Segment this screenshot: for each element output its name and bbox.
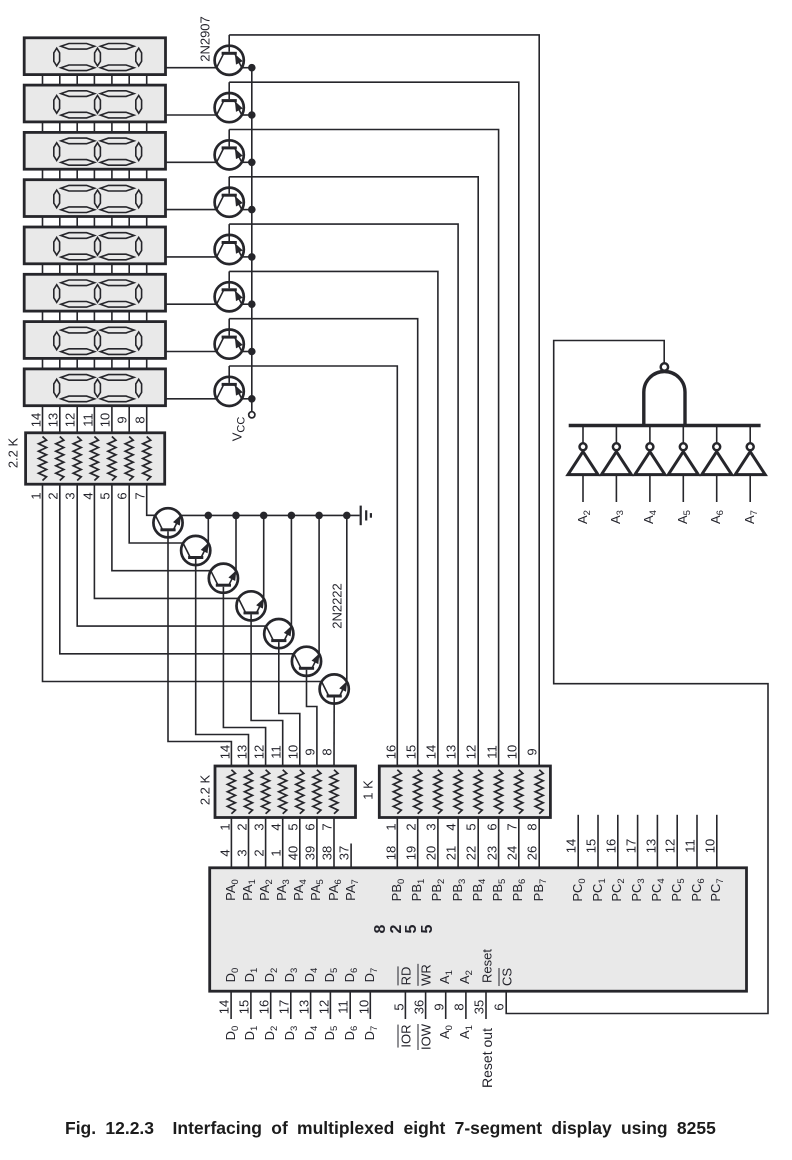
wire DS3 common to Q3 collector	[166, 161, 217, 163]
wire Q6 base to RP3 pin 14	[229, 271, 438, 766]
transistor Q8 2N2907 (PNP digit driver 8)	[215, 366, 252, 406]
transistor Q13 2N2222 (NPN segment driver 5)	[264, 512, 295, 649]
inverter U4 (input A3)	[601, 426, 631, 503]
label Vcc	[230, 417, 247, 442]
label RP1 2.2 K	[6, 437, 19, 467]
external bus labels D0-D7	[0, 0, 792, 1]
wire Q1 base to RP3 pin 9	[229, 35, 539, 766]
wire RP1 pin 3 to Q13 collector	[77, 484, 266, 626]
wire Q8 base to RP3 pin 16	[229, 366, 397, 766]
wire DS8 common to Q8 collector	[166, 398, 217, 400]
ground rail	[181, 514, 360, 516]
pin numbers 1-7 below RP1	[0, 0, 792, 1]
inverter U8 (input A7)	[735, 426, 765, 503]
wire DS7 common to Q7 collector	[166, 351, 217, 353]
inverter U3 (input A2)	[568, 426, 598, 503]
Vcc terminal	[249, 412, 255, 418]
7-segment display DS6	[24, 274, 165, 311]
8255 pin numbers for D0-D7	[0, 0, 792, 1]
wire Q14 base to RP2 pin 9	[307, 670, 317, 766]
ground symbol	[361, 506, 371, 526]
label 2N2222	[330, 583, 343, 629]
transistor Q15 2N2222 (NPN segment driver 7)	[320, 512, 351, 704]
segment bus pins below DS1	[43, 75, 147, 86]
7-segment display DS3	[24, 132, 165, 169]
8255 pin numbers 5 36 9 8 35 6	[0, 0, 792, 1]
resistor pack RP3 1K (base resistors)	[379, 766, 550, 818]
label RP3 1 K	[362, 780, 375, 800]
wire DS2 common to Q2 collector	[166, 114, 217, 116]
transistor Q14 2N2222 (NPN segment driver 6)	[292, 512, 323, 676]
IC U1 8255 PPI body	[210, 868, 747, 991]
transistor Q11 2N2222 (NPN segment driver 3)	[209, 512, 240, 593]
transistor Q1 2N2907 (PNP digit driver 1)	[215, 35, 252, 75]
inverter U7 (input A6)	[702, 426, 732, 503]
wire Q15 base to RP2 pin 8	[333, 698, 335, 767]
wire RP1 pin 2 to Q14 collector	[60, 484, 294, 654]
7-segment display DS4	[24, 180, 165, 217]
label 8255 inside IC	[0, 0, 792, 1]
resistor pack RP2 2.2K (base resistors)	[215, 766, 356, 818]
address input labels A2-A7	[0, 0, 792, 1]
wire Q7 base to RP3 pin 15	[229, 319, 418, 766]
wire Q5 base to RP3 pin 13	[229, 224, 458, 766]
pin numbers 1-7 below RP2	[0, 0, 792, 1]
wire RP1 pin 5 to Q11 collector	[112, 484, 211, 571]
external control labels IOR IOW A0 A1 Reset out	[0, 0, 792, 1]
control labels RD WR A1 A2 Reset CS inside IC	[0, 0, 792, 1]
pin PA7 stub	[350, 844, 352, 869]
wire Q12 base to RP2 pin 11	[251, 614, 283, 766]
transistor Q12 2N2222 (NPN segment driver 4)	[237, 512, 268, 621]
wire RP1 pin 4 to Q12 collector	[94, 484, 238, 598]
wire Q13 base to RP2 pin 10	[279, 642, 300, 766]
wire RP1 pin 7 to Q9 collector	[147, 484, 156, 515]
pin numbers 1-8 below RP3	[0, 0, 792, 1]
7-segment display DS2	[24, 85, 165, 122]
NAND input bar	[569, 424, 761, 427]
wire Q4 base to RP3 pin 12	[229, 177, 478, 766]
transistor Q3 2N2907 (PNP digit driver 3)	[215, 130, 252, 170]
pin numbers 14-8 above RP2	[0, 0, 792, 1]
segment bus pins below DS6	[43, 311, 147, 322]
segment bus pins below DS8	[43, 406, 147, 433]
PC0-PC7 pin stubs	[578, 815, 717, 868]
8255 pin numbers for PA0-PA7	[0, 0, 792, 1]
port A labels PA0-PA7	[0, 0, 792, 1]
segment bus pins below DS4	[43, 217, 147, 228]
D0-D7 pin stubs	[231, 991, 370, 1019]
NAND gate U2 (8-input, chip-select decoder)	[644, 363, 685, 425]
resistor pack RP1 2.2K (segment resistors)	[26, 433, 165, 484]
port B labels PB0-PB7	[0, 0, 792, 1]
label RP2 2.2 K	[199, 774, 212, 804]
wire RP1 pin 6 to Q10 collector	[129, 484, 183, 543]
7-segment display DS7	[24, 322, 165, 359]
transistor Q4 2N2907 (PNP digit driver 4)	[215, 177, 252, 217]
8255 pin numbers for PB0-PB7	[0, 0, 792, 1]
inverter U6 (input A5)	[668, 426, 698, 503]
pin numbers 16-9 above RP3	[0, 0, 792, 1]
segment bus pins below DS2	[43, 122, 147, 132]
data bus labels D0-D7 inside IC	[0, 0, 792, 1]
segment bus pins below DS7	[43, 358, 147, 369]
8255 pin numbers for PC0-PC7	[0, 0, 792, 1]
wire RP1 pin 1 to Q15 collector	[43, 484, 322, 681]
figure caption	[65, 1118, 725, 1139]
wire DS4 common to Q4 collector	[166, 209, 217, 211]
7-segment display DS1	[24, 38, 165, 75]
wire Q3 base to RP3 pin 11	[229, 130, 498, 767]
inverter U5 (input A4)	[635, 426, 665, 503]
wire DS5 common to Q5 collector	[166, 256, 217, 258]
wire Q9 base to RP2 pin 14	[168, 531, 231, 766]
segment bus pins below DS5	[43, 264, 147, 275]
transistor Q2 2N2907 (PNP digit driver 2)	[215, 82, 252, 122]
wire DS1 common to Q1 collector	[166, 67, 217, 69]
transistor Q5 2N2907 (PNP digit driver 5)	[215, 224, 252, 264]
transistor Q6 2N2907 (PNP digit driver 6)	[215, 271, 252, 311]
transistor Q9 2N2222 (NPN segment driver 1)	[153, 508, 182, 537]
wire CS pin to NAND gate output	[506, 341, 768, 1014]
control pin stubs RD WR A1 A2 Reset	[405, 991, 486, 1019]
7-segment display DS8	[24, 369, 165, 406]
pin numbers 14-8 above RP1	[0, 0, 792, 1]
port C labels PC0-PC7	[0, 0, 792, 1]
7-segment display DS5	[24, 227, 165, 264]
wire Q11 base to RP2 pin 12	[223, 587, 265, 766]
transistor Q7 2N2907 (PNP digit driver 7)	[215, 319, 252, 359]
wires RP2 pins 1-7 to PA0-PA6	[231, 818, 334, 869]
wire DS6 common to Q6 collector	[166, 303, 217, 305]
label 2N2907	[199, 16, 212, 62]
Vcc rail with junction dots	[248, 64, 256, 412]
wire Q2 base to RP3 pin 10	[229, 82, 519, 766]
segment bus pins below DS3	[43, 169, 147, 180]
wire Q10 base to RP2 pin 13	[196, 559, 249, 766]
transistor Q10 2N2222 (NPN segment driver 2)	[181, 512, 212, 566]
wires RP3 pins 1-8 to PB0-PB7	[397, 818, 539, 869]
